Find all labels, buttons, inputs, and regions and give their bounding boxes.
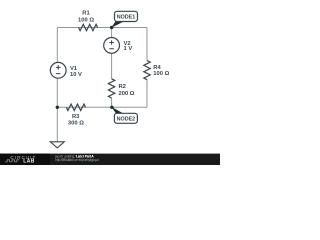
- svg-text:R1: R1: [82, 10, 90, 16]
- node junction bottom-mid: [110, 106, 113, 109]
- node NODE1 pointer: [111, 21, 123, 28]
- node NODE1: [115, 11, 138, 21]
- svg-text:10 V: 10 V: [70, 72, 82, 78]
- svg-text:NODE1: NODE1: [117, 15, 136, 21]
- node junction bottom-left: [56, 106, 59, 109]
- svg-text:100 Ω: 100 Ω: [78, 17, 94, 23]
- ground: [50, 142, 64, 148]
- svg-text:200 Ω: 200 Ω: [119, 91, 135, 97]
- voltage source V1: [50, 62, 66, 78]
- resistor R3: [66, 104, 85, 110]
- wire top horizontal: [57, 27, 147, 29]
- wire bottom horizontal: [57, 106, 147, 108]
- wire R2 bottom stub: [111, 98, 113, 107]
- svg-text:300 Ω: 300 Ω: [68, 121, 84, 127]
- wire left vertical: [56, 28, 58, 63]
- footer bar: [0, 154, 220, 165]
- svg-text:100 Ω: 100 Ω: [153, 71, 169, 77]
- wire left vertical lower: [56, 78, 58, 141]
- svg-text:R3: R3: [72, 114, 80, 120]
- wire right vertical: [146, 28, 148, 108]
- svg-text:http://circuitlab.com/c/porthy: http://circuitlab.com/c/porthyilgkqw/: [55, 158, 100, 162]
- node NODE2: [114, 113, 137, 123]
- voltage source V2: [104, 38, 120, 54]
- svg-text:LAB: LAB: [23, 159, 34, 165]
- svg-text:NODE2: NODE2: [117, 117, 136, 123]
- wire V2 stubs: [111, 28, 113, 79]
- svg-text:1 V: 1 V: [124, 46, 133, 52]
- resistor R2: [108, 79, 114, 98]
- svg-text:R2: R2: [119, 84, 126, 90]
- resistor R1: [79, 24, 98, 30]
- node junction top: [110, 26, 113, 29]
- resistor R4: [144, 61, 150, 80]
- node NODE2 pointer: [112, 107, 124, 114]
